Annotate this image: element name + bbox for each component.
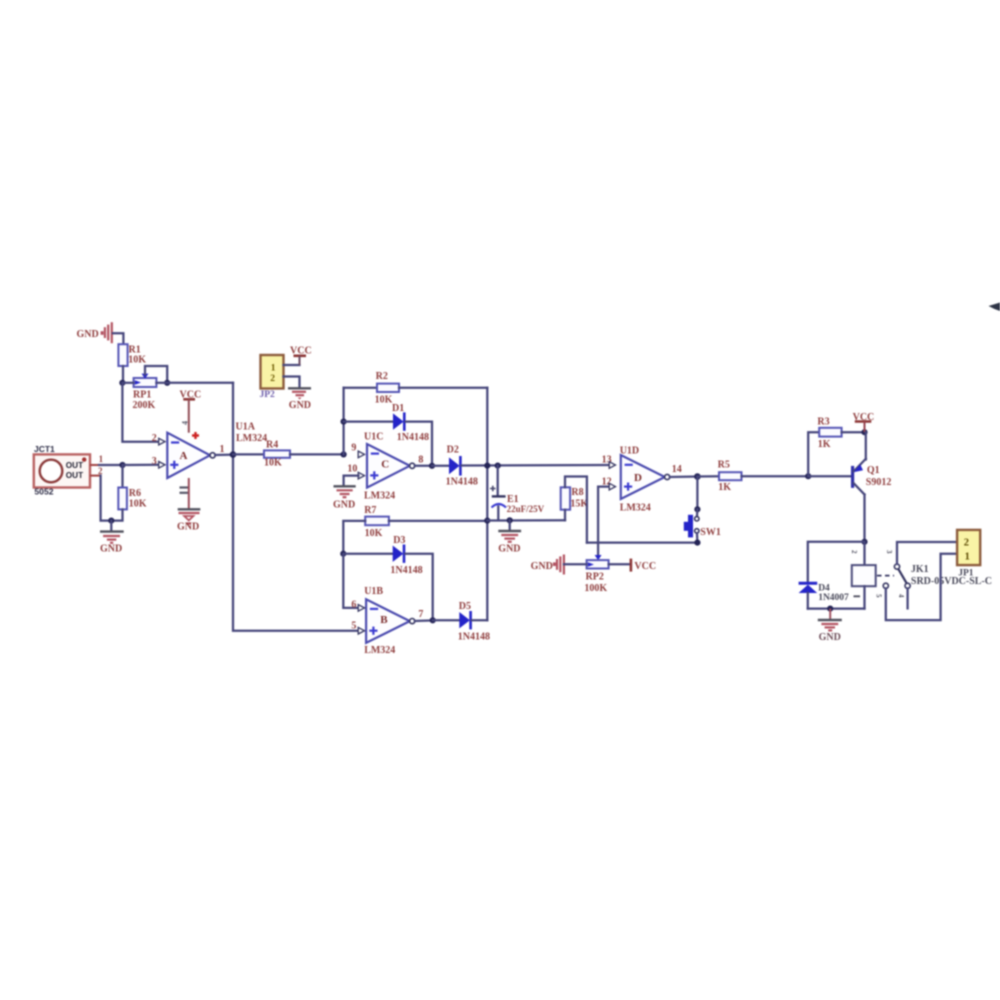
pin 5 U1B [351,620,364,634]
svg-text:1: 1 [271,363,276,373]
ground GND (RP2 left, rotated) [531,555,587,575]
node E1 tap [495,463,501,469]
relay JK1 coil [850,542,876,609]
svg-text:R6: R6 [129,488,141,499]
wire R7 left [343,521,365,554]
wire pole to JP1 pin2 [897,542,957,564]
op-amp U1D [620,445,665,513]
wire R1 to node [122,366,124,383]
wire feedback to vertical [167,382,233,384]
svg-text:10K: 10K [264,458,282,469]
svg-text:U1C: U1C [364,431,383,442]
diode D4 1N4007 [799,583,849,608]
resistor R1 [118,344,146,366]
pin 6 U1B [351,599,364,611]
svg-text:1K: 1K [818,439,831,450]
svg-text:10K: 10K [129,499,147,510]
svg-text:GND: GND [289,400,311,411]
svg-text:D2: D2 [447,445,459,456]
ground GND (top-left, rotated) [77,322,112,343]
svg-text:LM324: LM324 [236,433,267,444]
svg-text:1N4007: 1N4007 [818,593,849,603]
resistor R6 [118,488,147,510]
svg-text:200K: 200K [133,400,156,411]
svg-text:D3: D3 [393,535,405,546]
svg-text:15K: 15K [570,499,588,510]
wire vertical x487 (rectifier bus) [486,388,488,620]
wire R2 right [399,387,487,389]
svg-text:1: 1 [220,444,225,455]
connector JP2 [260,355,284,400]
ground GND (under U1A) [177,478,200,533]
svg-text:R2: R2 [376,371,388,382]
ground GND (under E1) [498,520,521,554]
svg-text:JK1: JK1 [911,564,929,575]
svg-text:5052: 5052 [34,487,53,497]
node U1A out [230,451,237,458]
diode D3 1N4148 [390,535,422,576]
svg-text:GND: GND [333,500,355,511]
svg-text:1: 1 [99,454,104,464]
svg-text:R3: R3 [817,416,829,427]
svg-text:7: 7 [418,609,423,620]
svg-text:U1B: U1B [364,586,383,597]
svg-text:6: 6 [351,599,356,610]
wire RP1 right wire [156,382,167,384]
wire pin2 jog to R6 bottom [101,476,123,521]
svg-text:1N4148: 1N4148 [397,432,429,443]
node pin3 input [119,462,125,468]
wire D3 right to output [405,554,433,621]
power VCC (Q1) [853,412,875,432]
svg-text:GND: GND [177,522,199,533]
power VCC (RP2 right, rotated) [609,559,656,572]
wire R8 bottom leg [564,510,566,521]
wire R2 left [344,387,377,389]
svg-text:GND: GND [819,632,841,643]
wire D3 left [343,553,392,555]
svg-text:1N4148: 1N4148 [446,477,478,488]
node D3 tap [340,551,346,557]
svg-text:22uF/25V: 22uF/25V [507,504,545,514]
output bubble U1D pin 14 [665,464,682,480]
node R1/RP1 [119,380,125,386]
svg-text:1N4148: 1N4148 [390,565,422,576]
svg-text:R8: R8 [571,487,583,498]
svg-text:A: A [180,450,188,462]
svg-text:C: C [381,458,389,470]
svg-text:10K: 10K [128,355,146,366]
wire R4 to pin9 [290,453,344,455]
pin 9 U1C [351,443,364,458]
node pin9 [341,451,347,457]
svg-text:R4: R4 [266,440,278,451]
svg-text:RP2: RP2 [586,572,604,583]
svg-text:B: B [380,614,388,626]
node D4 gnd junction [827,606,833,612]
wire pin9 vertical [342,388,344,455]
resistor R3 [817,416,841,450]
svg-text:D5: D5 [459,601,471,612]
wire D1 left [344,420,393,422]
svg-text:LM324: LM324 [364,645,395,656]
diode D1 1N4148 [392,403,429,443]
output bubble U1B pin 7 [410,609,424,624]
svg-text:VCC: VCC [634,561,656,572]
ground GND (relay) [818,609,842,643]
wire RP1 wiper loop [145,366,167,383]
svg-text:4: 4 [181,421,190,425]
wire pin12 net [598,487,609,555]
svg-text:10K: 10K [365,528,383,539]
node base [805,473,811,479]
node GND junction [108,518,114,524]
wire out to D5 [433,619,460,621]
wire collector to D4 [808,542,865,582]
svg-text:VCC: VCC [290,346,312,357]
svg-text:JCT1: JCT1 [34,444,55,454]
resistor R2 [375,371,399,406]
relay JK1 contacts [874,550,992,608]
node VCC/emitter [861,429,867,435]
wire R8 top leg [565,477,587,543]
svg-text:2: 2 [964,537,969,548]
wire pin1 to node [99,464,123,466]
wire base node up to R3 [808,432,819,476]
svg-text:4: 4 [897,594,905,598]
svg-text:2: 2 [152,433,157,444]
pin 1 JP2 / power VCC [284,346,312,366]
svg-text:9: 9 [351,443,356,454]
wire node to pin3 [123,464,159,467]
pin 1 JCT1 [90,454,104,465]
svg-text:JP1: JP1 [958,568,974,578]
resistor R7 [364,505,389,539]
potentiometer RP2 [584,555,608,594]
svg-text:14: 14 [672,464,682,475]
svg-text:GND: GND [498,544,520,555]
svg-text:U1D: U1D [620,445,639,456]
connector JP1 [957,530,980,578]
svg-text:2: 2 [850,550,858,554]
resistor R8 [561,487,589,510]
wire NC contact to JP1 pin1 [886,554,957,620]
svg-text:GND: GND [100,544,122,555]
wire node to pin2 [122,383,158,442]
svg-text:2: 2 [270,374,275,384]
svg-text:3: 3 [152,456,157,467]
node bus tap [484,463,490,469]
node E1 bottom [507,517,513,523]
svg-text:100K: 100K [584,583,607,594]
wire R3 right to VCC node [842,431,865,433]
svg-text:1K: 1K [718,482,731,493]
op-amp U1A [167,422,267,479]
wire R7 right [389,520,487,522]
wire D2 right / main row [462,464,610,467]
connector JCT1 [34,444,90,497]
svg-text:LM324: LM324 [364,491,395,502]
node U1B out [430,617,436,623]
svg-text:5: 5 [351,620,356,631]
wire RP1 left [122,382,133,384]
pin 2 U1A [152,433,165,445]
wire out to R5 [697,475,719,477]
node U1C out [429,463,435,469]
svg-text:1: 1 [965,551,970,562]
wire U1D out [670,475,698,478]
wire gnd row y520 [487,519,565,521]
pin 2 JCT1 [90,466,103,476]
wire vertical bus x233 [233,383,358,631]
svg-text:GND: GND [77,329,99,340]
svg-text:R7: R7 [364,505,376,516]
svg-text:8: 8 [418,454,423,465]
op-amp U1B [364,586,410,656]
artifact wedge (image edge) [989,303,1000,312]
node R7/bus [484,518,490,524]
node RP1 right [164,380,170,386]
potentiometer RP1 [133,374,157,411]
output bubble U1A pin 1 [210,444,225,458]
pin 13 U1D [602,454,616,468]
svg-text:SW1: SW1 [700,527,721,538]
pin 11 marker U1A [180,488,189,493]
output bubble U1C pin 8 [410,454,424,468]
wire R5 to base node [742,475,809,477]
wire out to D2 [432,465,449,467]
svg-text:OUT: OUT [66,471,83,480]
ground GND (U1C pin10) [333,486,356,510]
svg-text:Q1: Q1 [867,465,880,476]
power VCC U1A [180,390,202,440]
diode D5 1N4148 [458,601,490,642]
wire U1B out [415,619,433,622]
ground GND (under R6) [100,521,124,555]
svg-text:S9012: S9012 [866,477,892,488]
node collector [861,539,867,545]
wire pin10 to gnd [344,476,359,486]
svg-text:10: 10 [347,464,357,475]
wire U1C out [415,465,432,467]
capacitor E1 22uF/25V [490,466,545,521]
svg-text:U1A: U1A [236,422,256,433]
wire out to R4 [233,453,264,455]
svg-text:10K: 10K [375,395,393,406]
svg-text:D1: D1 [392,403,404,414]
svg-text:JP2: JP2 [260,390,276,400]
pin 12 U1D [602,476,616,490]
wire bottom row to coil [808,607,865,609]
wire D5 right to bus [472,619,488,621]
svg-text:OUT: OUT [66,461,83,470]
node D1 tap [341,419,347,425]
wire D1 right to output [406,422,433,466]
svg-text:D: D [634,472,642,484]
svg-text:GND: GND [531,561,553,572]
svg-text:RP1: RP1 [133,390,151,401]
node U1D out [694,473,701,480]
svg-text:5: 5 [874,594,882,598]
svg-text:R5: R5 [718,459,730,470]
svg-text:2: 2 [98,466,103,476]
diode D2 1N4148 [446,445,478,488]
op-amp U1C [364,431,410,501]
wire GND to R1 [113,333,124,344]
resistor R4 [264,440,290,469]
wire pin6 vertical [343,554,358,608]
svg-text:3: 3 [885,550,893,554]
pin 10 U1C [347,464,364,479]
resistor R5 [718,459,742,493]
wire row y542 to SW1 [587,541,698,543]
svg-text:D4: D4 [818,583,830,593]
pin 2 JP2 / ground GND [284,377,312,412]
pin 3 U1A [152,456,165,468]
svg-text:1N4148: 1N4148 [458,631,490,642]
transistor Q1 S9012 [808,432,891,542]
svg-text:SRD-05VDC-SL-C: SRD-05VDC-SL-C [911,576,992,587]
wire node down to R6 [121,465,123,488]
switch SW1 [684,477,721,546]
svg-text:LM324: LM324 [620,503,651,514]
wire U1A out [215,453,233,456]
